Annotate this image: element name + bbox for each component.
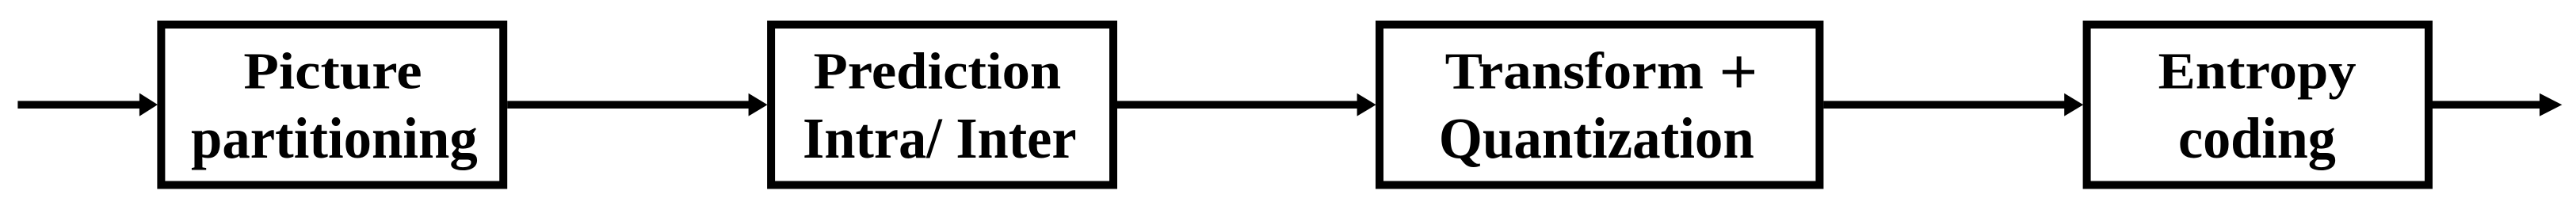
svg-text:Quantization: Quantization bbox=[1439, 107, 1754, 171]
block Transform + Quantization bbox=[1380, 25, 1819, 185]
block Entropy coding bbox=[2087, 25, 2429, 185]
wire arrow 1 bbox=[507, 93, 767, 116]
block Prediction Intra/ Inter bbox=[771, 25, 1113, 185]
wire arrow 3 bbox=[1823, 93, 2083, 116]
wire input arrow bbox=[17, 93, 158, 116]
svg-text:coding: coding bbox=[2178, 107, 2336, 171]
svg-text:Prediction: Prediction bbox=[814, 43, 1062, 101]
svg-text:Entropy: Entropy bbox=[2158, 43, 2357, 101]
svg-text:Transform: Transform bbox=[1445, 43, 1704, 101]
svg-text:Intra/ Inter: Intra/ Inter bbox=[803, 107, 1077, 171]
svg-text:Picture: Picture bbox=[243, 43, 422, 101]
wire arrow 2 bbox=[1117, 93, 1376, 116]
block Picture partitioning bbox=[161, 25, 503, 185]
plus sign of Transform + bbox=[1723, 56, 1754, 87]
svg-text:partitioning: partitioning bbox=[191, 107, 478, 171]
wire output arrow bbox=[2433, 93, 2562, 116]
